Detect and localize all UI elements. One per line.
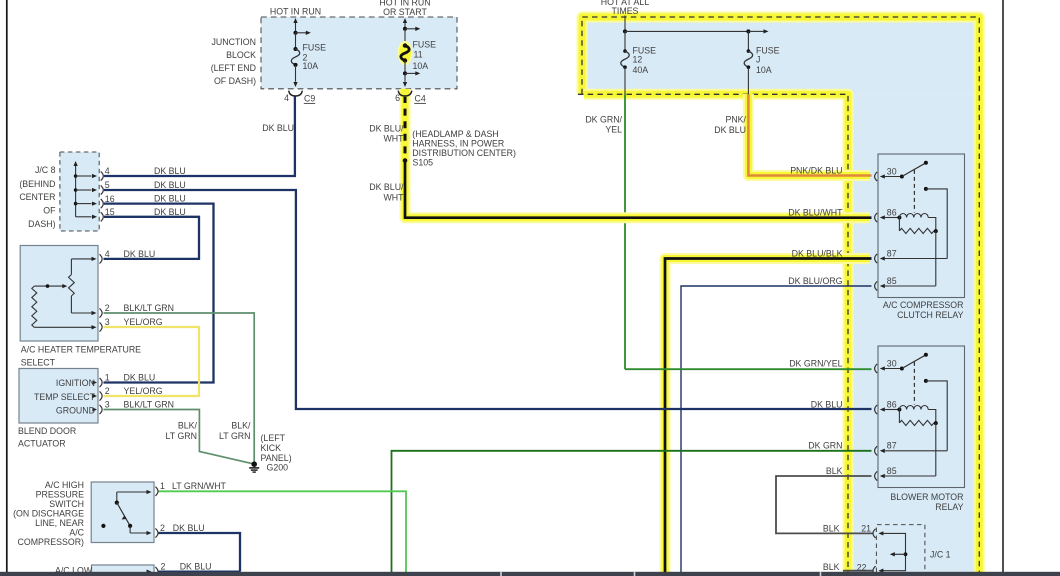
wire DK BLU from C9 to J/C 8 pin 4	[104, 96, 295, 176]
svg-text:BLK/: BLK/	[178, 421, 198, 431]
svg-text:(LEFT: (LEFT	[261, 433, 286, 443]
bottom status bar	[0, 572, 1060, 576]
svg-text:RELAY: RELAY	[935, 502, 963, 512]
svg-text:DK BLU: DK BLU	[173, 523, 205, 533]
svg-text:C9: C9	[304, 94, 315, 104]
fuse 2 (10A)	[293, 47, 297, 51]
svg-text:DK BLU/: DK BLU/	[369, 123, 404, 133]
A/C compressor clutch relay pin 86	[875, 213, 878, 222]
heater select pin 4 connector	[100, 254, 103, 263]
svg-text:3: 3	[105, 399, 110, 409]
blower motor relay coil	[897, 408, 901, 412]
svg-text:GROUND: GROUND	[56, 405, 95, 415]
svg-text:11: 11	[414, 49, 423, 59]
svg-text:PRESSURE: PRESSURE	[36, 489, 85, 499]
svg-text:87: 87	[887, 248, 897, 258]
A/C compressor clutch relay coil resistor	[898, 218, 900, 231]
blower motor relay pin 86	[875, 405, 878, 414]
heater select potentiometer (main element)	[69, 275, 75, 296]
svg-text:FUSE: FUSE	[413, 40, 437, 50]
page right border	[1002, 0, 1004, 572]
wire DK GRN/YEL horizontal to blower relay 30	[625, 368, 872, 370]
wire BLK stub to J/C 1 pin 22	[843, 570, 873, 572]
svg-text:DK BLU/BLK: DK BLU/BLK	[792, 248, 843, 258]
svg-text:BLEND DOOR: BLEND DOOR	[18, 426, 76, 436]
blower motor relay pin 87	[875, 446, 878, 455]
wire DK BLU from low pressure switch pin 2	[158, 570, 241, 572]
svg-text:BLK/: BLK/	[231, 421, 251, 431]
svg-text:10A: 10A	[303, 61, 319, 71]
wire LT GRN/WHT from high pressure switch pin 1	[158, 491, 407, 572]
J/C 1 pin 21 connector	[873, 529, 876, 538]
svg-text:86: 86	[887, 207, 897, 217]
A/C compressor clutch relay pin 30	[875, 172, 878, 181]
J/C 1 internal link	[882, 533, 906, 570]
wire DK BLU J/C 8 pin 16 to blend door actuator pin 1	[104, 204, 214, 383]
A/C high pressure switch box	[91, 482, 154, 543]
svg-text:FUSE: FUSE	[303, 42, 327, 52]
svg-text:15: 15	[105, 207, 115, 217]
svg-text:A/C HIGH: A/C HIGH	[45, 480, 84, 490]
svg-text:J/C 1: J/C 1	[930, 549, 951, 559]
J/C 1 pin 22 connector	[873, 566, 876, 575]
highlighted wire: fuse J to A/C relay 30 (PNK/DK BLU)	[748, 94, 869, 176]
svg-text:TEMP SELECT: TEMP SELECT	[34, 392, 96, 402]
svg-text:LT GRN: LT GRN	[219, 431, 250, 441]
A/C compressor clutch relay box	[878, 154, 965, 298]
J/C 8 pin 5	[76, 189, 92, 191]
svg-text:16: 16	[105, 194, 115, 204]
junction block dashed border	[261, 17, 457, 89]
svg-text:ACTUATOR: ACTUATOR	[18, 439, 66, 449]
wire DK BLU J/C 8 pin 5 to blower relay 86	[104, 190, 872, 409]
wire DK BLU from high pressure switch pin 2	[158, 533, 241, 572]
svg-text:DK BLU: DK BLU	[124, 249, 156, 259]
svg-text:PANEL): PANEL)	[261, 453, 292, 463]
svg-text:4: 4	[105, 166, 110, 176]
svg-text:SWITCH: SWITCH	[49, 499, 84, 509]
svg-text:CLUTCH RELAY: CLUTCH RELAY	[897, 310, 963, 320]
svg-text:2: 2	[105, 386, 110, 396]
svg-text:2: 2	[160, 523, 165, 533]
svg-text:SELECT: SELECT	[21, 357, 56, 367]
power distribution center highlighted boundary (inner step)	[584, 94, 848, 572]
svg-text:12: 12	[633, 54, 643, 64]
svg-text:2: 2	[105, 303, 110, 313]
svg-text:A/C COMPRESSOR: A/C COMPRESSOR	[883, 300, 964, 310]
svg-text:YEL/ORG: YEL/ORG	[124, 386, 163, 396]
svg-text:OF DASH): OF DASH)	[214, 76, 256, 86]
svg-text:G200: G200	[267, 463, 289, 473]
svg-text:LT GRN/WHT: LT GRN/WHT	[172, 481, 227, 491]
svg-text:YEL: YEL	[605, 125, 622, 135]
svg-text:PNK/: PNK/	[725, 114, 746, 124]
svg-text:DK GRN/: DK GRN/	[585, 114, 622, 124]
svg-text:TIMES: TIMES	[612, 6, 639, 16]
svg-text:LT GRN: LT GRN	[166, 431, 197, 441]
wire YEL/ORG heater select pin 3 to blend door pin 2	[104, 327, 200, 396]
svg-text:BLK: BLK	[823, 523, 840, 533]
PDC light blue fill (right column)	[848, 94, 980, 572]
heater select resistor (left)	[32, 286, 37, 327]
J/C 8 dashed box	[60, 152, 99, 231]
A/C heater temperature select box fill	[20, 246, 98, 342]
A/C high pressure switch box fill	[91, 482, 154, 543]
svg-text:CENTER: CENTER	[19, 192, 55, 202]
svg-text:87: 87	[887, 441, 897, 451]
wire BLK/LT GRN heater select pin 2 to G200	[104, 313, 255, 463]
svg-text:85: 85	[887, 466, 897, 476]
blend door actuator box fill	[19, 369, 98, 424]
svg-text:10A: 10A	[413, 61, 429, 71]
fuse 2 feed arrow from HOT IN RUN	[295, 23, 297, 33]
blower motor relay pin 85	[875, 471, 878, 480]
svg-text:BLK/LT GRN: BLK/LT GRN	[124, 399, 175, 409]
svg-text:40A: 40A	[633, 65, 649, 75]
svg-text:86: 86	[887, 399, 897, 409]
svg-text:WHT: WHT	[383, 134, 404, 144]
svg-text:BLK/LT GRN: BLK/LT GRN	[124, 303, 175, 313]
blend door actuator pin 1 connector	[92, 380, 97, 384]
svg-text:1: 1	[105, 372, 110, 382]
blower motor relay switch	[900, 367, 904, 371]
J/C 1 dashed box	[876, 525, 925, 572]
high pressure switch reference dot	[101, 524, 105, 528]
svg-text:30: 30	[887, 166, 897, 176]
svg-text:(BEHIND: (BEHIND	[19, 179, 55, 189]
svg-text:KICK: KICK	[261, 443, 282, 453]
svg-text:DK BLU: DK BLU	[154, 207, 186, 217]
blower motor relay coil resistor	[898, 410, 900, 423]
connector C4	[401, 89, 410, 97]
svg-text:DK GRN/YEL: DK GRN/YEL	[789, 358, 842, 368]
svg-text:A/C: A/C	[69, 527, 84, 537]
svg-text:BLK: BLK	[823, 562, 840, 572]
svg-text:A/C HEATER TEMPERATURE: A/C HEATER TEMPERATURE	[21, 344, 141, 354]
svg-text:(ON DISCHARGE: (ON DISCHARGE	[13, 508, 84, 518]
svg-text:21: 21	[861, 524, 871, 534]
svg-text:6: 6	[395, 93, 400, 103]
fuse 11 top junction	[403, 27, 407, 31]
A/C low pressure switch box fill	[92, 565, 155, 576]
svg-text:J/C 8: J/C 8	[35, 165, 56, 175]
svg-text:DK BLU/WHT: DK BLU/WHT	[788, 207, 843, 217]
wire DK GRN/YEL vertical from fuse 12	[624, 94, 626, 369]
svg-text:COMPRESSOR): COMPRESSOR)	[18, 537, 85, 547]
svg-text:(LEFT END: (LEFT END	[211, 63, 256, 73]
svg-text:PNK/DK BLU: PNK/DK BLU	[790, 165, 842, 175]
blend door actuator pin 2 connector	[92, 394, 97, 398]
fuse 2 top junction	[293, 31, 297, 35]
highlighted wire: C4 to S105 to A/C relay 86 (DK BLU/WHT)	[405, 89, 870, 218]
svg-text:DK BLU/: DK BLU/	[369, 182, 404, 192]
svg-text:BLOWER MOTOR: BLOWER MOTOR	[890, 492, 963, 502]
svg-text:DK BLU: DK BLU	[180, 561, 212, 571]
blend door actuator pin 3 connector	[92, 407, 97, 411]
svg-text:DISTRIBUTION CENTER): DISTRIBUTION CENTER)	[412, 148, 516, 158]
fuse J (10A)	[747, 31, 749, 51]
svg-text:DK BLU: DK BLU	[811, 399, 843, 409]
svg-text:4: 4	[284, 93, 289, 103]
svg-text:HOT IN RUN: HOT IN RUN	[270, 6, 321, 16]
svg-text:S105: S105	[413, 158, 434, 168]
splice S105	[403, 158, 408, 163]
fuse 12 (40A)	[624, 31, 626, 51]
connector C9	[289, 91, 303, 96]
svg-text:LINE, NEAR: LINE, NEAR	[35, 518, 84, 528]
heater select wiper	[34, 285, 62, 287]
A/C compressor clutch relay coil	[897, 216, 901, 220]
svg-text:1: 1	[160, 481, 165, 491]
svg-text:30: 30	[887, 358, 897, 368]
high pressure switch contacts	[117, 491, 147, 493]
A/C heater temperature select box	[20, 246, 98, 342]
PDC light blue fill (top bar)	[582, 17, 980, 94]
svg-text:YEL/ORG: YEL/ORG	[124, 317, 163, 327]
J/C 8 pin 15	[76, 216, 92, 218]
svg-text:WHT: WHT	[383, 192, 404, 202]
wire DK BLU J/C 8 pin 15 to heater select pin 4	[104, 217, 200, 259]
heater select pin 3 connector	[100, 322, 103, 331]
svg-text:22: 22	[857, 562, 867, 572]
svg-text:C4: C4	[415, 94, 426, 104]
svg-text:DK BLU: DK BLU	[714, 125, 746, 135]
fuse 12 feed stub from HOT AT ALL TIMES	[624, 16, 626, 32]
svg-text:OR START: OR START	[383, 7, 427, 17]
high pressure switch pin 2 connector	[155, 528, 158, 537]
wire DK BLU/ORG from A/C relay 85 down	[681, 286, 872, 572]
junction block fill	[261, 17, 457, 89]
low pressure switch pin 2 connector	[147, 569, 152, 573]
svg-text:3: 3	[105, 317, 110, 327]
svg-text:IGNITION: IGNITION	[56, 378, 95, 388]
svg-text:2: 2	[161, 561, 166, 571]
svg-text:4: 4	[105, 249, 110, 259]
A/C low pressure switch box (partial)	[92, 565, 155, 576]
svg-text:DK GRN: DK GRN	[808, 441, 842, 451]
high pressure switch pin 1 connector	[155, 487, 158, 496]
svg-text:DASH): DASH)	[28, 219, 55, 229]
svg-text:JUNCTION: JUNCTION	[212, 37, 256, 47]
ground G200	[251, 461, 257, 467]
svg-text:DK BLU: DK BLU	[154, 180, 186, 190]
blower motor relay box	[878, 346, 965, 488]
page left border	[6, 0, 8, 572]
highlighted wire: A/C relay 87 down (DK BLU/BLK)	[665, 259, 870, 573]
J/C 8 internal bus	[75, 166, 77, 217]
svg-text:DK BLU: DK BLU	[154, 166, 186, 176]
wire BLK blower relay 85 to J/C 1 pin 21	[776, 476, 873, 533]
svg-text:BLK: BLK	[826, 466, 843, 476]
J/C 8 pin 4	[76, 175, 92, 177]
J/C 8 pin 16	[76, 203, 92, 205]
power distribution center highlighted boundary (outer)	[582, 17, 979, 572]
svg-text:DK BLU: DK BLU	[262, 123, 294, 133]
bus from fuse 12 to fuse J	[623, 29, 627, 33]
fuse 11 bottom junction	[403, 71, 407, 75]
svg-text:OF: OF	[43, 205, 56, 215]
A/C compressor clutch relay pin 87	[875, 254, 878, 263]
svg-text:10A: 10A	[756, 65, 772, 75]
heater select pin 2 connector	[100, 308, 103, 317]
svg-text:BLOCK: BLOCK	[226, 50, 256, 60]
fuse 11 feed arrow from HOT IN RUN OR START	[404, 23, 406, 29]
svg-text:5: 5	[105, 180, 110, 190]
A/C compressor clutch relay pin 85	[875, 281, 878, 290]
J/C 8 box fill	[60, 152, 99, 231]
svg-text:DK BLU: DK BLU	[124, 372, 156, 382]
svg-text:DK BLU: DK BLU	[154, 194, 186, 204]
blower motor relay pin 30	[875, 364, 878, 373]
wire BLK/LT GRN blend door pin 3 to G200	[104, 410, 253, 464]
fuse 11 (10A) highlighted	[398, 41, 413, 65]
svg-text:DK BLU/ORG: DK BLU/ORG	[788, 276, 842, 286]
svg-text:85: 85	[887, 276, 897, 286]
A/C compressor clutch relay switch	[900, 175, 904, 179]
blend door actuator box	[19, 369, 98, 424]
svg-text:J: J	[756, 54, 760, 64]
wire DK GRN to blower relay 87	[392, 451, 872, 572]
